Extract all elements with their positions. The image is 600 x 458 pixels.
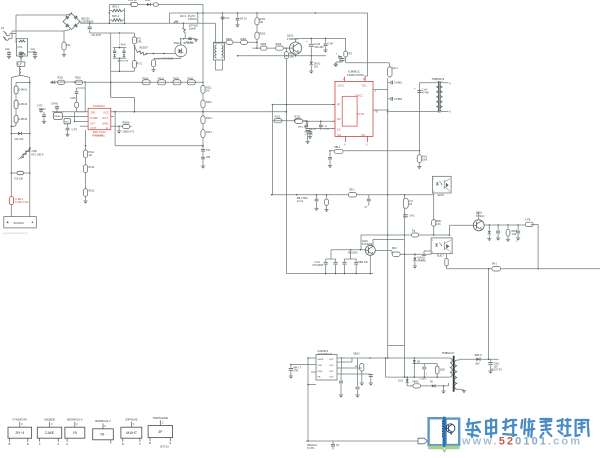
svg-text:FAN6961: FAN6961 — [93, 134, 106, 138]
svg-text:L-FB: L-FB — [525, 220, 530, 222]
power IC U201 red box — [335, 81, 373, 136]
svg-text:MM 7.7: MM 7.7 — [294, 368, 302, 370]
cap on bottom rail — [332, 441, 334, 444]
svg-text:4KAHT: 4KAHT — [126, 431, 138, 435]
svg-text:R213: R213 — [206, 117, 212, 120]
wire plug to top line — [10, 33, 17, 35]
svg-text:R206: R206 — [276, 43, 282, 46]
small part right of strip — [39, 109, 42, 111]
svg-text:MB-1: MB-1 — [335, 146, 341, 149]
node vertical left of SR5 pair — [108, 5, 110, 24]
svg-text:R501: R501 — [436, 221, 442, 223]
svg-text:P13: P13 — [206, 150, 211, 152]
svg-text:1.8K: 1.8K — [512, 234, 517, 236]
link rails at y=345.5 — [388, 345, 405, 347]
svg-text:MOUT 5V: MOUT 5V — [491, 369, 502, 372]
svg-text:senses MOC3063: senses MOC3063 — [154, 58, 174, 61]
optocoupler PC202 — [431, 238, 452, 254]
svg-text:C-R3: C-R3 — [37, 106, 43, 108]
NTC resistor top of right chain — [133, 33, 135, 37]
svg-text:R5B08: R5B08 — [123, 123, 131, 125]
right row resistor RS00 — [142, 80, 150, 85]
svg-text:C12: C12 — [31, 48, 36, 51]
HV startup rail x=203 — [202, 5, 204, 147]
svg-text:7B: 7B — [375, 111, 378, 114]
junction cap C104 — [89, 23, 91, 25]
transistor Q401 KTC3206 — [365, 245, 375, 255]
svg-text:VA-D: VA-D — [121, 44, 127, 47]
line y=145.8 from FAN region to rail — [115, 145, 203, 147]
FAN6961 left pin wires — [52, 111, 88, 113]
svg-text:MB10: MB10 — [354, 354, 361, 356]
thermistor diagonal with arrow — [21, 149, 30, 158]
svg-text:RS00: RS00 — [142, 77, 149, 80]
svg-text:VDD: VDD — [318, 365, 323, 367]
svg-text:1M: 1M — [206, 90, 209, 93]
zener on aux — [406, 377, 408, 386]
photo triac SSR circle MOC3063 — [175, 45, 187, 57]
T201 secondary winding — [440, 82, 442, 112]
svg-text:SOT-23: SOT-23 — [160, 446, 169, 449]
diode D101 on top rail — [147, 3, 150, 7]
svg-text:RS02: RS02 — [173, 77, 180, 80]
aux line y=385.9 — [407, 385, 448, 387]
svg-text:BZX84C22-V: BZX84C22-V — [95, 419, 111, 423]
svg-text:C-9B-02: C-9B-02 — [19, 104, 28, 106]
svg-text:R302: R302 — [75, 77, 81, 80]
series resistor DR-1 on line — [348, 192, 356, 197]
fuse element 3 — [14, 116, 18, 123]
Q501 base line to opto2 — [450, 224, 474, 226]
bead on output line — [492, 266, 501, 271]
svg-text:+: + — [306, 40, 308, 44]
rail resistor R212 — [201, 100, 205, 108]
svg-text:2NF4214Z: 2NF4214Z — [125, 418, 138, 422]
cap C-RA3 with ground — [43, 112, 45, 114]
svg-text:150K: 150K — [440, 370, 446, 372]
svg-text:EL817: EL817 — [437, 256, 444, 258]
wire top-left to bridge — [16, 14, 66, 16]
opto2 bottom resistor — [446, 254, 448, 259]
rail down from output line — [488, 269, 490, 360]
svg-text:R205: R205 — [261, 43, 267, 46]
gate pulldown resistor — [284, 52, 288, 59]
rail resistor R214 — [201, 130, 205, 138]
feedback rail x=272.4 — [271, 121, 273, 195]
svg-text:CX1: CX1 — [18, 46, 23, 49]
left strip rails — [11, 75, 21, 77]
T201 primary winding — [436, 82, 438, 112]
bulk cap C110 polarized — [310, 38, 312, 43]
Q401 collector to P line — [372, 240, 374, 246]
small box P06 — [64, 119, 71, 124]
svg-text:27W: 27W — [294, 371, 300, 373]
svg-text:R-T2: R-T2 — [137, 64, 143, 66]
U601 left pin 3 stub — [311, 371, 316, 373]
SSR trigger line — [145, 53, 175, 55]
cap above IC with ground — [340, 58, 344, 60]
shunt regulator KIA431 — [414, 254, 416, 256]
resistor R203 on gate feed — [226, 40, 233, 44]
svg-text:DR2: DR2 — [392, 248, 397, 250]
svg-text:C: C — [139, 443, 141, 446]
svg-text:1M: 1M — [409, 204, 412, 206]
branch y=384.5 — [308, 384, 316, 386]
snubber line y=62.7 — [346, 62, 390, 64]
svg-text:RT: RT — [337, 103, 341, 107]
vertical x=115.1 — [114, 112, 116, 146]
connector arrow at line end — [418, 438, 428, 444]
fuse element 1 — [14, 86, 18, 94]
snubber part at x=345.6 — [344, 51, 348, 57]
svg-text:SR5-1: SR5-1 — [112, 6, 120, 9]
snubber resistor — [435, 366, 439, 374]
svg-text:TMMT2222R: TMMT2222R — [153, 416, 168, 420]
IC red pin stubs — [344, 77, 346, 82]
source rail down x=286.5 — [285, 59, 287, 274]
bottom snubber loop wire — [414, 363, 437, 365]
rail resistor R211 — [201, 85, 205, 93]
resistor R204 on gate feed — [241, 40, 248, 44]
T601 primary winding — [450, 358, 452, 377]
svg-text:RLY-1: RLY-1 — [180, 15, 187, 18]
Q101 source wire — [295, 54, 297, 56]
svg-text:R203: R203 — [226, 38, 232, 41]
svg-text:RS11: RS11 — [89, 152, 95, 154]
series cap on rail x=404.5 — [403, 214, 408, 216]
svg-text:C-opto: C-opto — [418, 259, 425, 262]
varistor left drop — [110, 33, 112, 97]
svg-text:C-MY: C-MY — [328, 43, 335, 46]
feedback line y=150.8 — [330, 150, 420, 152]
transistor Q501 — [473, 220, 484, 231]
svg-text:C-9B-01: C-9B-01 — [19, 90, 28, 92]
svg-text:MB4 A/D: MB4 A/D — [359, 261, 368, 264]
resistor to ground 3 — [507, 225, 509, 229]
aux resistor to ground below line y=150.8 — [417, 155, 421, 163]
svg-text:SU6010: SU6010 — [13, 221, 24, 225]
svg-text:RG: RG — [349, 53, 353, 56]
svg-text:MB02: MB02 — [413, 382, 420, 384]
rail x=308 down to bottom — [307, 358, 309, 441]
left row resistor 2 — [75, 80, 83, 84]
svg-text:CA6E: CA6E — [45, 431, 55, 435]
bead FB501 — [525, 222, 533, 226]
series resistor on rail x=404.5 — [403, 198, 408, 208]
svg-text:KTN2907AS: KTN2907AS — [13, 418, 28, 422]
cap pair 1 — [330, 250, 332, 259]
svg-text:BZX84C16-V: BZX84C16-V — [67, 418, 83, 422]
FAN6961 out pin right with resistor — [111, 125, 123, 127]
svg-text:1M: 1M — [89, 155, 92, 157]
U601 right pins — [337, 357, 342, 359]
gate resistor RG2 — [275, 46, 283, 50]
svg-text:GND: GND — [318, 371, 323, 373]
svg-text:HVCC: HVCC — [356, 94, 364, 98]
svg-text:SDQ/B36: SDQ/B36 — [44, 418, 56, 422]
svg-text:C-H: C-H — [409, 201, 413, 203]
wire main line into choke LF102 — [215, 23, 217, 43]
svg-text:R312: R312 — [295, 116, 301, 119]
diode link across strip — [11, 133, 13, 135]
output rectifier diode D601 — [476, 357, 480, 361]
svg-text:MB C-M01: MB C-M01 — [297, 198, 309, 200]
right row resistor RS03 — [187, 80, 195, 85]
svg-text:AR: AR — [337, 117, 341, 121]
svg-text:VCC: VCC — [103, 111, 109, 115]
standby controller U601 box — [316, 355, 337, 381]
divider cap to ground — [307, 121, 309, 127]
svg-text:OUT: OUT — [102, 116, 108, 120]
svg-text:CS: CS — [337, 128, 341, 132]
svg-text:MB 0.22: MB 0.22 — [298, 127, 307, 129]
X-cap C101 and ground — [7, 52, 11, 54]
bottom feedback rail y=441 — [306, 440, 418, 442]
svg-text:D101: D101 — [145, 0, 151, 2]
aux diode — [432, 384, 435, 387]
divider vertical — [271, 105, 273, 121]
svg-text:C-HV: C-HV — [422, 90, 428, 92]
svg-text:OUT: OUT — [329, 371, 334, 373]
Q401 base line — [331, 249, 365, 251]
svg-text:17N60C3: 17N60C3 — [287, 37, 299, 41]
rail bottom caps and ground — [202, 145, 204, 147]
svg-text:1M: 1M — [260, 21, 263, 24]
FAN6961 lower rail with resistors — [85, 130, 87, 201]
ICP fuse below junction — [182, 23, 184, 27]
IC right pin to rail y=89.4 — [373, 88, 388, 90]
lower resistor of right chain — [133, 46, 135, 61]
HV bus line y=38.4 — [296, 37, 346, 39]
HV elbow to snubber line — [345, 38, 347, 51]
Q401 emitter line right with resistor — [375, 250, 392, 252]
right vertical of SR5 pair — [124, 8, 126, 23]
svg-text:C10: C10 — [5, 48, 10, 51]
HV aux line down x=419.5 — [419, 83, 421, 151]
svg-text:www.520101.com: www.520101.com — [461, 436, 582, 448]
svg-text:MB D2W: MB D2W — [348, 253, 358, 255]
U601 left pin 1 wire — [308, 357, 316, 359]
long line y=194.7 — [272, 194, 434, 196]
T601 secondary top out — [457, 359, 459, 361]
svg-text:KTC3206: KTC3206 — [362, 243, 373, 246]
svg-text:5.0 3%: 5.0 3% — [307, 448, 314, 450]
cap at x=368.8 on line — [368, 195, 370, 199]
svg-text:TM891C6: TM891C6 — [442, 351, 455, 355]
fuse element 2 — [14, 100, 18, 109]
svg-text:SG: SG — [337, 133, 341, 137]
svg-text:C-HB01: C-HB01 — [394, 83, 403, 85]
resistor+cap on right pins — [342, 361, 353, 363]
cap C-RA5 above — [55, 106, 59, 108]
svg-text:R214: R214 — [206, 131, 212, 134]
IC inner red box — [342, 96, 357, 126]
svg-text:SSR-1: SSR-1 — [174, 42, 182, 45]
cap C-R7 and ground — [67, 124, 69, 128]
svg-text:Fig TC: Fig TC — [186, 42, 193, 44]
snubber cap — [423, 364, 425, 367]
svg-text:RESIST: RESIST — [140, 48, 149, 50]
startup resistor R202 — [256, 25, 258, 32]
strip link top — [16, 82, 30, 84]
svg-text:NTC: NTC — [137, 39, 142, 41]
U601 left pin cap to ground — [291, 363, 316, 365]
svg-text:NF-4707: NF-4707 — [92, 34, 102, 37]
svg-text:ICM6961C: ICM6961C — [93, 104, 106, 108]
left row diode — [50, 81, 52, 83]
svg-text:EB8 S: EB8 S — [475, 354, 482, 357]
left strip choke coil — [20, 66, 22, 75]
wire plug low line — [9, 38, 13, 40]
right row resistor RS02 — [173, 80, 181, 85]
svg-text:C65: C65 — [206, 157, 211, 159]
right row resistor RS01 — [158, 80, 166, 85]
watermark book icon — [428, 417, 459, 454]
svg-text:FUSE 3.15A: FUSE 3.15A — [15, 201, 29, 204]
svg-text:B02: B02 — [476, 364, 481, 366]
filter box LF101 — [16, 39, 27, 56]
SSR top wire to snubber node — [180, 39, 182, 45]
svg-text:OUT: OUT — [329, 377, 334, 379]
svg-text:R202: R202 — [260, 33, 266, 36]
gate resistor RG1 — [260, 46, 267, 50]
svg-text:C-RA3: C-RA3 — [39, 108, 47, 111]
caps beside rail — [390, 81, 392, 85]
Q401 emitter down — [369, 255, 371, 273]
svg-text:COMP: COMP — [90, 116, 99, 120]
svg-text:R204: R204 — [241, 38, 247, 41]
svg-text:P1: P1 — [1, 26, 5, 30]
svg-text:VCTR: VCTR — [357, 112, 364, 116]
svg-text:3P: 3P — [158, 430, 163, 434]
svg-text:RG-1: RG-1 — [392, 67, 398, 70]
divider row resistor 1 — [274, 119, 282, 123]
relay contact — [174, 21, 176, 24]
T601 secondary bottom to ground — [457, 388, 462, 390]
zigzag resistor to SSR line — [134, 46, 136, 51]
source sense rail y=55.8 — [238, 55, 327, 57]
resistor below bridge with ground — [63, 31, 65, 42]
connector box SU6010 — [4, 217, 37, 228]
svg-text:E: E — [106, 126, 108, 130]
caps to ground under IC — [340, 358, 343, 380]
cap C111 with ground — [325, 38, 327, 43]
varistor branch line y=33 — [90, 32, 135, 34]
svg-text:C 400V: C 400V — [419, 379, 427, 381]
MOV pair buses — [113, 47, 126, 49]
opto1 lower-left pin to feedback line — [433, 193, 435, 235]
opto2 left stub — [424, 250, 431, 252]
Y-cap C102 and ground — [19, 52, 23, 54]
small part on rail near x=151 — [153, 3, 158, 6]
PFC controller U301 FAN6961 red box — [88, 108, 111, 129]
bridge rectifier BD101 diamond — [63, 14, 80, 30]
svg-text:INT: INT — [91, 121, 96, 125]
gate feed line y=42.3 — [213, 41, 257, 43]
cap to ground at left end of feedback line — [329, 151, 331, 157]
T601 core bar — [453, 356, 454, 392]
snubber diode branch bottom — [413, 358, 415, 377]
svg-text:16V: 16V — [314, 66, 319, 69]
ground under out pin — [118, 126, 120, 131]
wire chain down to gate line — [256, 39, 258, 48]
SSR bottom resistor to ground — [180, 57, 182, 59]
svg-text:150K: 150K — [422, 160, 428, 162]
MOSFET Q101 17N60C3 — [290, 42, 302, 54]
elbow down to 12V line — [537, 224, 539, 268]
svg-text:Z/B: Z/B — [91, 111, 95, 115]
svg-text:D-02: D-02 — [398, 381, 404, 383]
svg-text:EL817: EL817 — [438, 195, 445, 197]
aux ground — [443, 386, 445, 391]
svg-text:L-P: L-P — [18, 64, 22, 66]
svg-text:VDL: VDL — [362, 84, 368, 88]
svg-text:OUT: OUT — [329, 365, 334, 367]
CS pin line with cap to ground — [310, 128, 335, 130]
svg-text:C-A2: C-A2 — [315, 261, 321, 264]
IC right pin to rail y=110 — [373, 109, 388, 111]
svg-text:FSFR1700XC: FSFR1700XC — [347, 73, 364, 77]
Q501 emitter line right — [484, 224, 531, 226]
chain elbow to left rail — [11, 123, 16, 126]
vertical from row to FAN area — [84, 82, 86, 112]
line down to Q3 base area — [360, 235, 362, 250]
cap across lines at x=222.5 — [222, 13, 224, 43]
svg-text:C-R7: C-R7 — [72, 130, 78, 132]
main vertical rail x=387.7 — [387, 78, 389, 358]
wire bridge top corner — [66, 14, 72, 16]
svg-text:125VAC: 125VAC — [188, 18, 197, 21]
zener to ground 1 — [488, 225, 490, 230]
startup resistor chain x=257 R201 — [256, 13, 258, 18]
resistor SR5-1 zigzag — [112, 9, 123, 12]
choke LF102 box — [214, 43, 225, 60]
svg-text:F101 4A: F101 4A — [128, 0, 137, 2]
cap C105 to ground at x=237.5 — [237, 13, 239, 18]
resistor on opto1 lower branch — [432, 220, 436, 227]
cap on AR line 1 — [305, 121, 307, 124]
resistor inline on feedback line — [334, 149, 343, 153]
svg-text:C-HB02: C-HB02 — [394, 99, 403, 101]
MOV 2 — [123, 48, 125, 51]
comp network M-RA5 — [54, 112, 63, 119]
cap row to ground near SSR top — [183, 38, 196, 40]
svg-text:OUT: OUT — [91, 126, 97, 130]
svg-text:Y8 -: Y8 - — [100, 433, 107, 437]
svg-text:R-H1: R-H1 — [422, 157, 428, 159]
cap and ground under snubber line — [339, 59, 341, 63]
link 2 across strip — [11, 172, 13, 174]
output cap C601 — [490, 359, 492, 361]
svg-text:(C.7 2B): (C.7 2B) — [305, 134, 313, 136]
snubber resistor vertical at x=390 — [388, 67, 392, 77]
svg-text:RS12: RS12 — [89, 167, 95, 169]
Q501 collector stub with tick — [478, 213, 480, 220]
gate line y=48.1 to Q1 — [253, 47, 290, 49]
svg-text:DR-1: DR-1 — [349, 189, 355, 192]
bead on mid line — [412, 233, 419, 237]
svg-text:Y5: Y5 — [73, 431, 77, 435]
svg-text:C-H2: C-H2 — [409, 216, 415, 218]
svg-text:2.0K: 2.0K — [436, 224, 441, 226]
left strip inductor label box — [17, 62, 25, 66]
primary bottom line y=377.1 — [386, 376, 449, 378]
svg-text:R10: R10 — [66, 44, 71, 47]
Q101 drain wire up — [295, 38, 297, 42]
svg-text:TIP41C: TIP41C — [476, 215, 485, 218]
cap to ground 2 — [497, 225, 499, 230]
svg-text:C/RL: C/RL — [137, 41, 143, 43]
